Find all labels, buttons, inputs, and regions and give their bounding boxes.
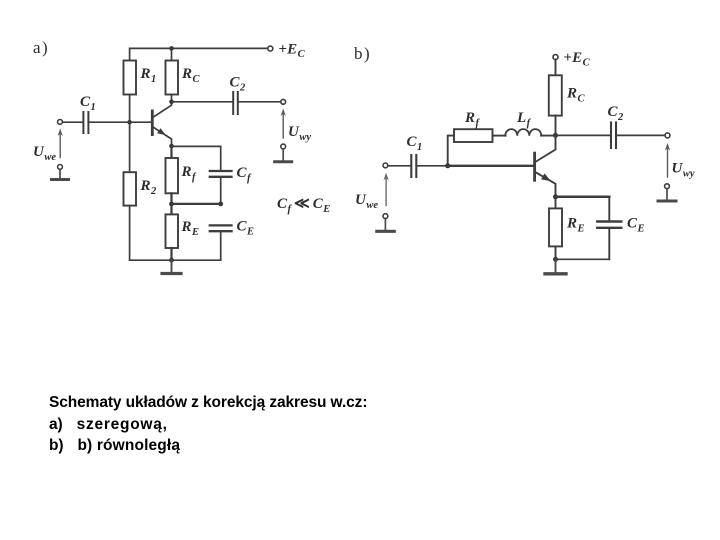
capacitor C1 (a) <box>83 112 88 133</box>
base bar <box>151 110 154 137</box>
terminal input circle a <box>58 120 63 125</box>
wire between junctions y204 <box>172 203 221 205</box>
svg-text:CE: CE <box>237 219 255 238</box>
wire node to C2 (b) <box>556 134 611 136</box>
wire C1 to transistor base <box>88 121 151 123</box>
svg-text:RC: RC <box>181 66 201 85</box>
wire RC bottom to node <box>555 116 557 136</box>
capacitor C1 (b) <box>411 155 416 177</box>
svg-text:Uwy: Uwy <box>672 161 695 180</box>
terminal input circle b <box>383 163 388 168</box>
terminal +Ec circle <box>268 46 273 51</box>
wire input to C1 (b) <box>388 165 411 167</box>
node bottom junction a <box>169 258 174 263</box>
resistor Rf (b) horizontal <box>454 129 493 142</box>
wire top rail a <box>130 48 269 60</box>
svg-text:Lf: Lf <box>516 110 532 129</box>
ground (b) <box>545 259 566 274</box>
wire emitter node to CE branch (thick) <box>556 196 610 199</box>
emitter lead <box>154 128 172 147</box>
emitter arrowhead <box>157 128 166 135</box>
capacitor CE (b) <box>597 222 621 228</box>
node collector junction a <box>169 100 174 105</box>
svg-text:b): b) <box>354 44 371 63</box>
node emitter junction b <box>553 194 558 199</box>
node emitter junction a <box>169 144 174 149</box>
wire RC bottom riser <box>171 95 173 102</box>
resistor R1 <box>124 61 137 95</box>
wire junction to RE <box>170 204 172 215</box>
arrow Uwy (a) <box>281 109 286 139</box>
node junction top rail / RC <box>169 46 174 51</box>
wire RC top riser <box>171 48 173 60</box>
terminal small circle below Uwy (a) <box>281 144 286 149</box>
node Rf/RE junction <box>169 202 174 207</box>
node base junction a <box>127 120 132 125</box>
wire emitter node to Rf <box>170 146 172 158</box>
wire Rf left to base tap <box>448 136 454 166</box>
terminal small circle below Uwe arrow (a) <box>58 165 63 170</box>
svg-text:RE: RE <box>181 219 200 238</box>
transistor Q1 (a) <box>151 102 172 146</box>
terminal small circle below Uwe (b) <box>383 214 388 219</box>
arrow Uwe (b) <box>384 173 389 206</box>
ground under Uwe (b) <box>377 219 394 232</box>
emitter lead <box>536 173 556 197</box>
terminal +Ec circle (b) <box>553 55 558 60</box>
svg-text:CE: CE <box>627 216 645 235</box>
arrow Uwe (a) <box>58 129 63 158</box>
terminal output circle a <box>281 99 286 104</box>
resistor Rf (a) <box>166 158 179 193</box>
svg-text:R2: R2 <box>140 178 158 197</box>
arrow Uwy (b) <box>665 143 670 177</box>
wire Rf bottom to junction <box>170 193 172 204</box>
wire Cf bottom to junction <box>220 178 222 204</box>
wire bottom rail b <box>556 258 610 260</box>
svg-text:C1: C1 <box>407 134 423 153</box>
wire emitter node to Cf branch top <box>172 146 221 170</box>
svg-text:Rf: Rf <box>181 164 198 183</box>
wire +Ec to RC <box>555 60 557 76</box>
svg-text:Uwe: Uwe <box>355 192 378 211</box>
terminal output circle b <box>665 133 670 138</box>
base bar <box>533 152 536 182</box>
emitter arrowhead <box>541 173 551 181</box>
wire collector to C2 <box>172 101 234 103</box>
collector lead <box>536 135 556 161</box>
ground under Uwy (a) <box>275 149 292 162</box>
resistor R2 <box>124 172 137 205</box>
capacitor CE (a) <box>210 225 232 231</box>
ground (a) <box>162 260 181 273</box>
svg-text:C1: C1 <box>80 94 96 113</box>
svg-text:+EC: +EC <box>279 42 306 61</box>
svg-text:R1: R1 <box>140 66 157 85</box>
svg-text:Cf: Cf <box>237 165 253 184</box>
wire R1 to base node to R2 <box>129 95 131 173</box>
wire tap to transistor base (b) thick <box>448 165 534 167</box>
transistor Q2 (b) <box>533 135 555 196</box>
resistor RC (b) <box>549 75 562 115</box>
capacitor C2 (b) <box>611 123 616 149</box>
wire bottom rail a <box>130 259 221 261</box>
svg-text:+EC: +EC <box>564 50 591 69</box>
node Cf/CE junction <box>218 202 223 207</box>
resistor RE (b) <box>549 208 562 246</box>
wire RE bottom <box>170 248 172 260</box>
resistor RC <box>166 61 179 95</box>
ground under Uwy (b) <box>658 189 676 201</box>
inductor Lf <box>493 129 556 136</box>
svg-text:Cf≪CE: Cf≪CE <box>277 196 330 215</box>
svg-text:RE: RE <box>566 216 585 235</box>
resistor RE (a) <box>166 214 179 248</box>
svg-text:C2: C2 <box>230 75 247 94</box>
caption text <box>49 392 367 457</box>
wire CE branch top vertical <box>608 197 610 221</box>
capacitor Cf (a) <box>210 171 232 177</box>
capacitor C2 (a) <box>233 92 238 114</box>
wire CE bottom vertical <box>608 229 610 259</box>
node collector junction b <box>553 133 558 138</box>
wire input to C1 <box>62 121 83 123</box>
svg-text:Uwy: Uwy <box>288 124 311 143</box>
node base tap junction b <box>445 163 450 168</box>
wire emitter to RE (b) <box>555 197 557 209</box>
wire RE bottom (b) <box>555 246 557 259</box>
svg-text:RC: RC <box>566 86 586 105</box>
node bottom junction b <box>553 257 558 262</box>
svg-text:Rf: Rf <box>464 110 481 129</box>
wire C2 to output <box>238 101 281 103</box>
svg-text:C2: C2 <box>608 104 625 123</box>
wire C2 to output (b) <box>616 134 665 136</box>
wire C1 to tap junction (b) <box>416 165 447 167</box>
wire R2 bottom <box>129 206 131 261</box>
collector lead <box>154 102 172 117</box>
svg-text:Uwe: Uwe <box>33 144 56 163</box>
wire CE to bottom rail <box>220 232 222 260</box>
ground under Uwe (a) <box>52 169 69 179</box>
svg-text:a): a) <box>33 38 49 57</box>
terminal small circle below Uwy (b) <box>665 184 670 189</box>
